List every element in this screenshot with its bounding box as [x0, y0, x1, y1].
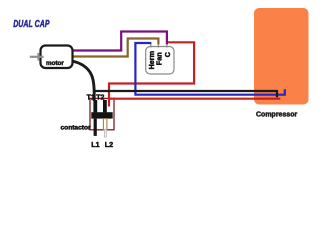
- svg-text:L2: L2: [105, 140, 113, 149]
- contactor lower bar L1 (black): [94, 119, 97, 136]
- svg-text:contactor: contactor: [61, 125, 91, 132]
- brown wire: motor to cap Fan: [73, 39, 159, 57]
- red wire: cap C terminal to contactor T2: [109, 42, 194, 106]
- svg-text:Compressor: Compressor: [256, 112, 298, 119]
- compressor body: [254, 8, 309, 105]
- capacitor terminal Herm: [150, 42, 152, 47]
- blue wire: cap Herm to compressor: [135, 43, 284, 95]
- svg-text:T1: T1: [87, 95, 95, 102]
- purple wire: motor to cap C: [73, 32, 167, 51]
- red wire: contactor T2 to compressor: [108, 98, 280, 100]
- capacitor body (dual cap): [146, 47, 174, 75]
- contactor crossbar: [91, 112, 112, 118]
- contactor lower bar L2 (tan): [103, 119, 107, 130]
- svg-text:DUAL CAP: DUAL CAP: [13, 18, 50, 30]
- motor shaft vertical: [37, 53, 39, 61]
- svg-text:L1: L1: [91, 140, 99, 149]
- motor body: [41, 46, 73, 69]
- capacitor terminal C: [166, 42, 168, 47]
- contactor L2 white wire stub: [104, 130, 106, 138]
- svg-text:T2: T2: [96, 95, 104, 102]
- svg-text:C: C: [163, 52, 172, 57]
- black wire: junction to compressor: [94, 91, 277, 97]
- contactor contact bar T2: [103, 100, 107, 112]
- svg-text:motor: motor: [46, 60, 64, 67]
- capacitor terminal Fan: [157, 42, 159, 47]
- motor shaft horizontal: [30, 56, 44, 58]
- contactor contact bar T1: [93, 100, 97, 112]
- black wire: motor to contactor T1: [72, 61, 95, 101]
- contactor body: [90, 98, 114, 129]
